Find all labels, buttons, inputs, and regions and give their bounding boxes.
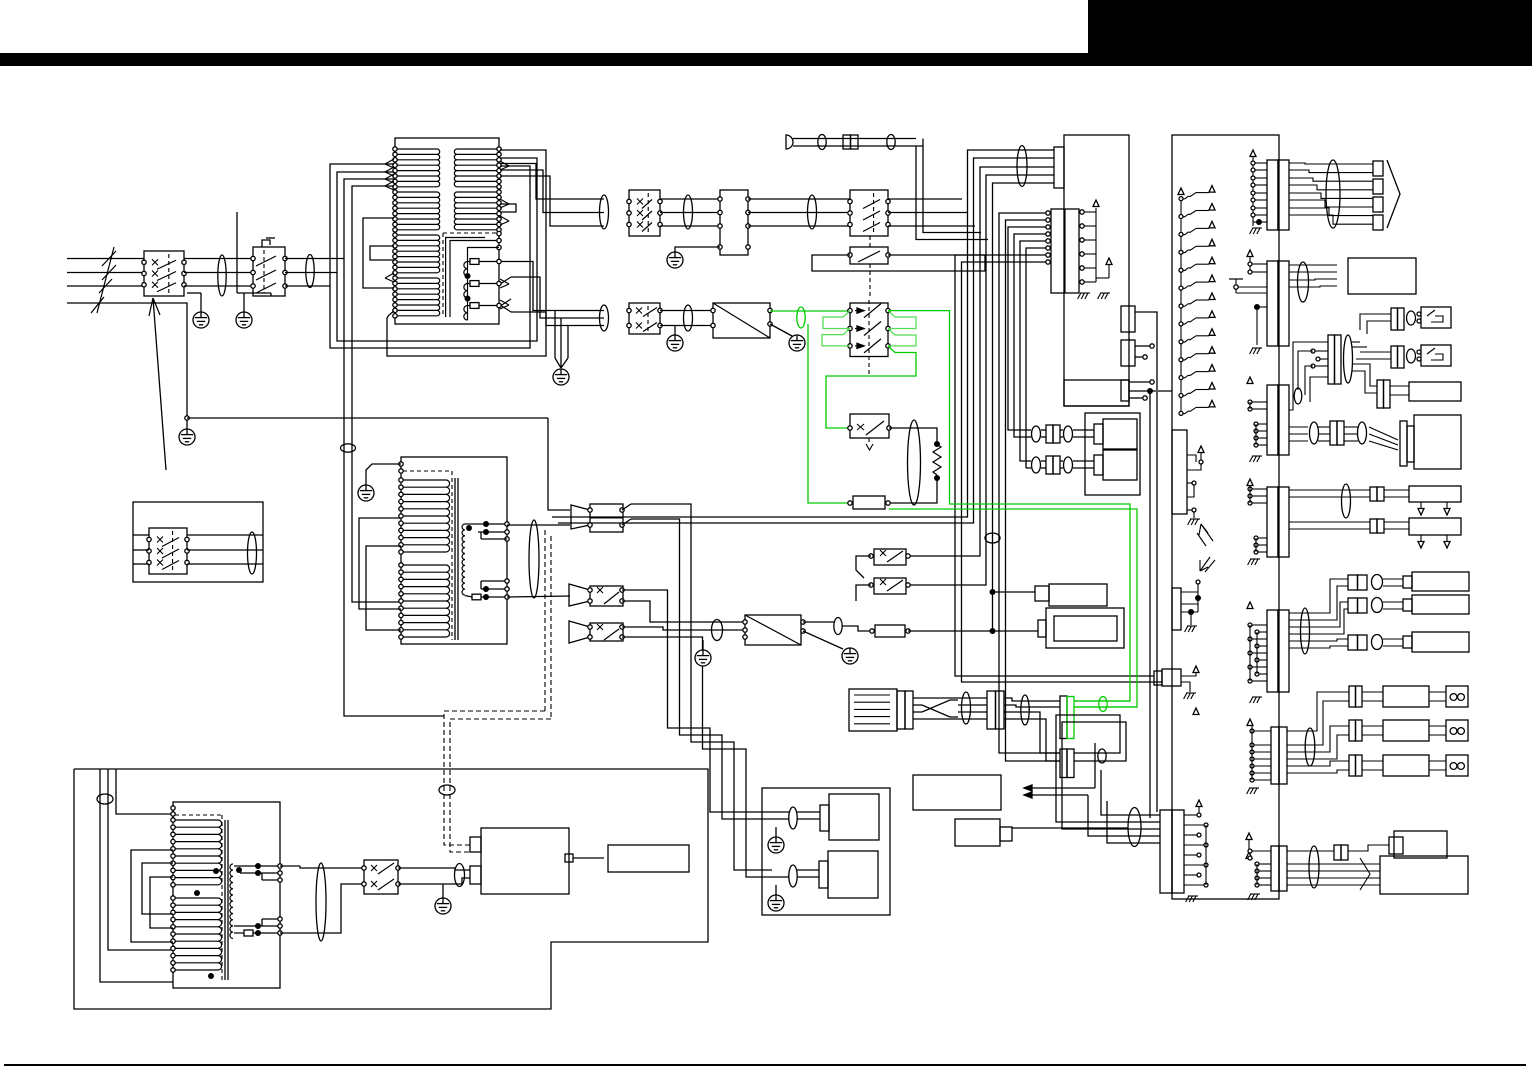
audio out row2: filter box (1383, 720, 1429, 741)
connector strip CN912 (1267, 261, 1278, 346)
lamp select switch S902 (629, 190, 660, 236)
wire PCB partition output (1129, 390, 1172, 392)
wire L2 to transformer loop (285, 272, 337, 274)
degauss coil loop ellipse (908, 420, 921, 505)
speaker cable row1 (1348, 575, 1358, 590)
ferrite bead FB929 (1305, 728, 1315, 766)
wire drop d7 (1006, 220, 1061, 761)
lamp arrows row2 (1420, 535, 1422, 541)
wires S911 to amp unit (398, 868, 470, 870)
ground E906 (358, 485, 374, 501)
wire drop d1 (552, 199, 968, 517)
box M902 (1046, 608, 1124, 648)
audio out row1: filter box (1383, 686, 1429, 707)
CN917 wires to audio rows (1287, 692, 1349, 731)
wire AC line L2 (67, 272, 144, 274)
wire drop d3 (908, 226, 980, 556)
switch chain elements (1179, 197, 1183, 201)
sub-board frame F901 (1085, 413, 1140, 495)
thermal fuse F901 (468, 261, 471, 263)
audio out row2: connector (1349, 720, 1356, 741)
ferrite bead FB921 (green) (1099, 697, 1107, 712)
bottom unit enclosure (74, 769, 708, 1009)
headphone unit M908 (1409, 382, 1461, 401)
T903 secondary outputs upper (255, 863, 261, 869)
wire drop d12 (955, 255, 1154, 676)
tap forks on aux outputs (501, 277, 511, 284)
wire S907 outputs (631, 504, 772, 870)
ferrite bead FB928 (1301, 608, 1310, 654)
ground E911 (775, 885, 777, 895)
T902 primary taps (399, 462, 403, 466)
legend switch S0 (149, 528, 187, 574)
relay RY903 (875, 625, 905, 637)
plug unit row2: bead (1032, 457, 1041, 473)
T901 primary taps (393, 147, 397, 151)
harness connector CN907 (987, 691, 996, 729)
wire converter third input (702, 640, 704, 650)
green link left U2 (822, 329, 850, 346)
control unit box M912 (1394, 831, 1447, 858)
ground rake G11 (1187, 625, 1197, 627)
audio out row3: filter box (1383, 755, 1429, 776)
wire heater output 1 (501, 262, 604, 311)
green wire degauss loop out (888, 311, 1130, 701)
aux winding bus (468, 248, 500, 321)
ferrite bead FB917 (789, 807, 797, 829)
footer rule (4, 1064, 1526, 1066)
wire drop into harness d14 (1094, 743, 1096, 788)
heater switch S912 (629, 303, 660, 334)
wire T903 out lower (280, 884, 364, 933)
PCB sub-section partition (1064, 380, 1129, 406)
T903 core dashed (221, 815, 223, 980)
T901 primary winding (left) (396, 148, 437, 150)
ferrite bead FB914 (97, 794, 113, 804)
monitor box M909 (1414, 415, 1461, 469)
switch chain bus (1180, 196, 1182, 414)
wires crossing to CN907 (958, 697, 987, 699)
wire S909 outputs (622, 627, 745, 630)
row2 wires (1026, 460, 1031, 462)
ferrite bead FB931 (lower row) (600, 305, 609, 331)
phase-count slash marks (97, 247, 114, 313)
monitor cable bead B (1358, 422, 1367, 444)
ground E905 (667, 252, 683, 268)
ground E908 (842, 648, 858, 664)
ferrite bead on dashed pair (439, 785, 455, 795)
T901 core dashed boundary (442, 233, 444, 317)
box M902 tab (1038, 620, 1046, 637)
speaker SP2 tab (819, 861, 828, 888)
wires S902 to connector (660, 198, 720, 200)
ground E910 (775, 827, 777, 837)
T903 secondary outputs lower (255, 923, 261, 929)
T902 fuse (465, 596, 472, 598)
header black title block (1088, 0, 1532, 66)
wire long vertical to harness B (1149, 495, 1151, 822)
enclosure feed wires (116, 769, 173, 814)
plug unit row2: bead 2 (1064, 457, 1073, 473)
amp unit tab upper (470, 837, 481, 852)
green wire degauss feed (770, 310, 850, 312)
T901 auxiliary winding c (464, 306, 468, 321)
T903 core lines (224, 820, 226, 980)
aux winding junctions (465, 273, 471, 279)
ferrite bead FB930 (1309, 846, 1319, 888)
degauss posistor switch S905 (850, 303, 888, 357)
wire heater output 2 (511, 277, 604, 318)
small bead FB926 (1294, 388, 1302, 404)
wire secondary jumper A (500, 204, 516, 212)
ground E913 (674, 326, 676, 336)
wire drain to ground bar (236, 212, 238, 293)
transformer T902 frame (401, 457, 507, 644)
CN913 left pins (1311, 349, 1315, 353)
ribbon chevron (1387, 160, 1400, 228)
CN905 output wires (1135, 345, 1150, 347)
speaker enclosure box (762, 788, 890, 915)
T902 secondary coil (462, 524, 465, 595)
legend box (133, 502, 263, 582)
ferrite bead FB904 (684, 195, 693, 229)
audio out row2: jack (1446, 720, 1468, 741)
lamp arrows row1 (1420, 502, 1422, 508)
legend ferrite bead (248, 532, 257, 574)
ferrite bead FB903 (600, 195, 609, 229)
arrow M903 to display (573, 857, 604, 859)
earth bus wire to chassis (187, 417, 548, 419)
T902 left loop B (366, 546, 401, 630)
ground E904 (553, 369, 569, 385)
monitor cable bead A (1310, 422, 1319, 444)
ferrite bead FB923 (main harness) (1128, 808, 1141, 847)
wire to lamp circuit 1 (500, 164, 604, 200)
ground rake G5 (1252, 455, 1262, 457)
wire relay to junction (908, 630, 993, 632)
remote switch row2 connector (1391, 346, 1398, 368)
ferrite bead FB927 (1342, 484, 1351, 518)
CN906 output wires (1129, 381, 1150, 383)
wire to lamp circuit 2 (500, 170, 604, 213)
main PCB block P901 (1064, 135, 1129, 406)
ferrite bead FB907 (887, 135, 895, 150)
wire L3 to relay (184, 285, 253, 287)
wire converter output (803, 621, 834, 623)
supply arrow on CN903 (1093, 200, 1099, 207)
wires S912 to bridge (660, 310, 713, 312)
monitor cable connector (1330, 421, 1337, 445)
degauss switch S906 (850, 414, 889, 438)
CN911 output wires (1289, 163, 1373, 164)
ferrite bead FB910 (T902 output) (529, 520, 539, 598)
CN909 wires (1056, 715, 1128, 822)
wire T902 out upper (507, 524, 570, 526)
plug unit row1: connector (1046, 425, 1053, 443)
connector CN901 (720, 190, 748, 255)
T902 left loop A (359, 518, 401, 609)
T903 left loops (131, 850, 173, 942)
wire resistor to relay (888, 478, 937, 503)
green wire degauss loop return (889, 509, 1137, 707)
connector strip CN915 (1267, 487, 1278, 557)
T901 pin forks left (385, 159, 394, 164)
wire drop d6 (999, 213, 1060, 753)
supply arrow above CN917 (1193, 708, 1199, 715)
wire AC line L1 (67, 258, 144, 260)
row1 wires (1026, 429, 1031, 431)
PCB edge connector CN904 (1121, 306, 1135, 332)
lamp box M910 (1409, 486, 1461, 502)
ground E901 (187, 292, 201, 294)
shield drain wires to ground funnel (554, 311, 556, 359)
ground rake G12 (1186, 692, 1196, 694)
wire T902 out lower (507, 596, 570, 597)
CN915 wires row1 (1289, 489, 1370, 491)
connector strip CN914 (1267, 385, 1278, 455)
T901 secondary taps (497, 147, 501, 151)
connector CN909 (1060, 749, 1067, 778)
ferrite bead FB909 (degauss) (797, 307, 805, 328)
T903 primary taps (171, 806, 175, 810)
ferrite bead FB922 (1098, 749, 1106, 763)
plug unit row1: tab+box (1094, 424, 1103, 444)
plug unit row2: tab+box (1094, 455, 1103, 475)
power transformer T901 frame (395, 138, 499, 324)
PCB edge connector CN905 (1121, 340, 1135, 366)
tuner box M906 (955, 819, 1000, 846)
wire CN901 ground lead (675, 247, 720, 252)
lamp box M911 (1409, 518, 1461, 535)
CN912 output wires with arrows (1289, 264, 1337, 266)
connector fork S908 (569, 584, 590, 606)
cable marker chevron (1360, 858, 1370, 890)
wire loop left B (337, 158, 537, 341)
wire heater output 3 (511, 312, 604, 326)
wire AC line L3 (67, 285, 144, 287)
resistor R901 (zigzag) (934, 441, 940, 447)
ferrite bead FB905 (808, 195, 817, 229)
ferrite bead FB911 (712, 620, 723, 641)
CN904 output wire (1135, 312, 1157, 390)
ferrite bead FB932 (684, 305, 693, 331)
crossed wire pair (913, 697, 958, 699)
junction on earth line (185, 416, 189, 420)
CN913 left wires (1298, 351, 1313, 390)
connector fork S907 (571, 505, 590, 529)
plug unit row2: connector (1046, 456, 1053, 474)
RF unit box M907 (1348, 258, 1416, 294)
wire riser c5 (993, 183, 1055, 240)
wire riser c1 (968, 150, 1055, 199)
ground rake G2 (1100, 292, 1110, 294)
switch unit S907 (590, 504, 623, 532)
thermal fuse F903 (468, 305, 471, 307)
T902 core lines (454, 478, 456, 640)
row1 feed wires (1360, 314, 1391, 330)
wire U902 to ground diag (770, 324, 792, 336)
ferrite bead FB916 (455, 864, 465, 887)
plug unit row1: bead (1032, 426, 1041, 442)
ground E903 (186, 420, 188, 429)
row2 feed wires (1360, 351, 1391, 353)
plug P1 + box M901 (1035, 586, 1049, 601)
funnel to monitor plug (1369, 427, 1398, 440)
green link left U1 (823, 311, 850, 329)
ground E914 (789, 335, 805, 351)
ground rake G9 (1250, 893, 1260, 895)
wire drop d9 (1014, 234, 1048, 437)
wires CN907 to CN908 (1004, 698, 1060, 701)
mic wire risers (916, 146, 988, 240)
ground E902 (237, 292, 271, 294)
wire L1 to relay (184, 258, 253, 260)
switch S910b (874, 578, 906, 594)
DC-DC converter U901 (745, 615, 801, 645)
video input box M905 (913, 775, 1001, 810)
audio out row1: jack (1446, 686, 1468, 707)
headphone jack connector (1377, 380, 1384, 408)
wire riser c4 (986, 175, 1054, 233)
SP2 wires (797, 869, 819, 871)
speaker cable row3 (1348, 635, 1358, 650)
cursor arrow up (1201, 524, 1213, 541)
T902 ground lead (366, 464, 401, 485)
ground rake G7 (1252, 696, 1262, 698)
T903 primary winding (174, 819, 218, 821)
ferrite bead FB912 (834, 618, 842, 635)
connector pair row1 (1370, 487, 1377, 501)
wires S903 to risers (888, 198, 962, 200)
switch S910a (874, 549, 906, 565)
sub power switch S904 (850, 247, 888, 264)
junction below CN912 (1254, 304, 1260, 310)
CN915 wires row2 (1289, 521, 1370, 523)
CN913 right wires (1352, 330, 1360, 342)
ferrite bead FB925 (1298, 262, 1309, 302)
T903 fuse (244, 930, 253, 936)
CN910 right pins (1197, 813, 1201, 817)
degauss relay switch S903 (850, 190, 888, 236)
T902 core dashed (451, 471, 453, 640)
ferrite bead FB908 (1017, 146, 1027, 187)
audio out row3: jack (1446, 755, 1468, 776)
wire drop d10 (1020, 241, 1048, 461)
wire drop d4 (908, 233, 986, 586)
switch S911 (364, 860, 398, 894)
CN914 pins (1248, 400, 1252, 404)
wire T903 out upper (280, 866, 364, 868)
tuner plug (1000, 827, 1012, 841)
display box M904 (608, 845, 689, 872)
SP1 wires (789, 811, 820, 813)
wire long vertical to harness A (1156, 392, 1158, 812)
monitor plug (1400, 421, 1407, 466)
inner panel boxes: B3 (line in) (1154, 671, 1162, 685)
wire drop d8 (1008, 227, 1048, 430)
remote switch row2 bead (1407, 349, 1416, 363)
green link right U1 (888, 311, 916, 329)
wire drop d2 (558, 213, 974, 524)
T903 secondary coil (230, 864, 233, 938)
deflection yoke comb (849, 689, 897, 731)
wire L2 to relay (184, 272, 253, 274)
plug unit row1: bead 2 (1064, 426, 1073, 442)
ferrite bead FB918 (789, 865, 797, 887)
wire AC neutral/earth line (67, 303, 187, 418)
T902 secondary outputs (465, 523, 477, 525)
green link right U2 (888, 329, 916, 346)
wires CN901 to S903 (748, 198, 850, 200)
wire to box M902 tab (993, 630, 1039, 632)
connector strip CN917 (1271, 727, 1279, 784)
power relay RY901 (253, 247, 285, 296)
ground rake G4 (1252, 347, 1262, 349)
wire S906 to resistor (889, 428, 937, 444)
wire feed into harness 815 (1101, 770, 1128, 815)
speaker SP2 (828, 851, 878, 898)
ferrite bead FB924 (1326, 160, 1340, 228)
callout arrow to main switch (153, 298, 166, 470)
wire converter to ground diag (803, 631, 843, 649)
CN918 wires to main box (1287, 863, 1380, 865)
switch unit S908 (590, 586, 623, 606)
ground rake G10 (1190, 518, 1200, 520)
mic cable wire pair (793, 138, 916, 140)
connector strip CN916 (1267, 610, 1278, 692)
wire long to right (1461, 390, 1520, 392)
wire to lamp circuit 3 (500, 176, 604, 226)
microphone MC901 (786, 135, 793, 149)
T901 pin forks right (500, 161, 509, 166)
wires CN907 to CN909 (1004, 712, 1060, 753)
remote switch row2 unit (1421, 345, 1451, 366)
audio out row1: connector (1349, 686, 1356, 707)
green harness wires (1074, 700, 1130, 702)
speaker unit boxes (1403, 576, 1412, 588)
CN903 right pins to supply rail (1080, 210, 1084, 214)
wire bus rectangle (812, 255, 985, 271)
ground E907 (695, 650, 711, 666)
video input arrows (1024, 787, 1095, 789)
T901 secondary winding upper (right) (457, 148, 498, 150)
connector CN908 (half green) (1060, 696, 1067, 739)
ferrite bead FB906 (818, 135, 826, 150)
ground rake G1 (1080, 292, 1090, 294)
bridge/inverter U902 (713, 303, 770, 338)
ground E909 (442, 884, 444, 898)
tuner output wires (1012, 827, 1128, 829)
ground rake G6 (1250, 558, 1260, 560)
ribbon headers (1373, 161, 1383, 176)
amp unit tab lower (470, 866, 481, 884)
connector strip CN910 (main harness) (1160, 810, 1172, 893)
wire loop left C (387, 150, 546, 356)
mic connector CN902 (843, 135, 851, 149)
AV harness connector CN913 (1328, 335, 1335, 384)
audio out row3: connector (1349, 755, 1356, 776)
T903 polarity dots (213, 868, 219, 874)
amp unit box M903 (481, 828, 569, 894)
ferrite bead FB920 (1021, 695, 1029, 725)
wire drop d13 (962, 262, 1163, 682)
harness wires into CN910 (1128, 814, 1160, 816)
remote switch row1 bead (1407, 311, 1416, 325)
wire drop d5 (992, 240, 994, 632)
T901 core lines (446, 238, 485, 318)
wire riser to T2 (left pair outer) (344, 179, 444, 716)
degauss relay RY902 (853, 496, 885, 509)
